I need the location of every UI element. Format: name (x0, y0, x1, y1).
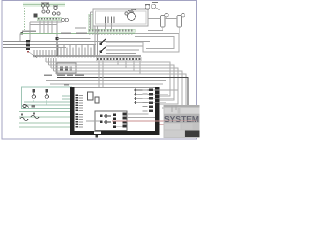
transistor Q1 (100, 114, 111, 118)
red signal wire 2 (160, 124, 197, 126)
wire lower run A (46, 80, 166, 82)
contactor K1 contacts (41, 3, 49, 9)
level sensor SL1 (151, 3, 160, 11)
PCB pin header J1 (75, 95, 83, 112)
wire Y1 feed (148, 19, 163, 31)
label row below X5 (89, 33, 133, 34)
temperature probe R1 (20, 114, 28, 121)
thermostat T1 (23, 104, 35, 107)
wire mesh horizontal run 3 (51, 68, 178, 104)
wire drops from X1 (40, 21, 57, 39)
wires from switches (98, 42, 144, 57)
wires inside sensor box (24, 96, 76, 105)
contact pair S3 (61, 18, 68, 21)
labels at Q3 (143, 89, 148, 111)
label TD (64, 84, 69, 86)
terminal block X2 (26, 40, 30, 50)
wire junction to pump drop (57, 38, 91, 40)
watermark text SYSTEM (164, 115, 199, 124)
terminal strip X5 (88, 29, 135, 32)
terminal strip X4 (96, 57, 141, 60)
wire: top green supply band (23, 3, 65, 8)
switch S1 (100, 39, 107, 45)
junction node A (55, 37, 58, 56)
capacitor C1 (106, 17, 115, 24)
relay KM1 contacts (42, 10, 60, 15)
auxiliary contact block (53, 6, 58, 10)
green sensor wires bottom left (19, 112, 76, 128)
wire lower run B (50, 83, 163, 85)
wire diagonal jumper (29, 52, 37, 58)
red signal wire 1 (112, 120, 196, 122)
PCB pin header J2 (75, 114, 83, 128)
wire mesh horizontal run 1 (46, 62, 170, 96)
red signal wire 1 over watermark (164, 120, 197, 122)
relay coil K1 (34, 13, 38, 17)
label L1 (61, 33, 87, 34)
label row above X5 (75, 27, 86, 28)
wire: green distribution line (20, 34, 140, 42)
relay bank K3 (123, 113, 127, 128)
pressure switch B1 (145, 5, 150, 10)
bus tick comb (34, 45, 94, 58)
switch S2 (100, 47, 107, 53)
wire verticals over watermark top (172, 105, 176, 112)
wires U1 outputs (86, 114, 155, 127)
main terminal bus X3 (33, 55, 141, 57)
supply wires from left (3, 42, 26, 48)
label row above bus (44, 75, 84, 77)
PCB bottom connector pin (96, 135, 99, 138)
motor M1 (125, 10, 136, 21)
solenoid valve Y1 (161, 13, 169, 27)
control board PCB A1 (70, 87, 160, 135)
wire mesh left verticals (46, 58, 56, 74)
inner loop wires right of pump (135, 34, 179, 53)
watermark logo backdrop (164, 105, 200, 138)
diode bank D1 (113, 114, 116, 128)
PCB inner module U1 (95, 111, 127, 131)
main dark return wire (57, 78, 188, 113)
solenoid valve Y2 (177, 13, 185, 27)
fuse F1 (88, 92, 100, 103)
wire drops from X4 strip (99, 61, 140, 87)
wires Q3 outputs right (153, 90, 178, 103)
svg-text:SYSTEM: SYSTEM (164, 115, 199, 124)
wire bus below X1 (30, 22, 62, 42)
terminal strip X1 (37, 17, 61, 21)
transistor Q2 (100, 120, 111, 124)
output driver bank Q3 (149, 89, 153, 113)
terminal column X0 (24, 8, 26, 30)
pump unit enclosure (93, 9, 148, 26)
phase wires to bus (30, 42, 150, 48)
wire mesh horizontal run 5 (56, 74, 186, 112)
temperature probe R2 (31, 113, 39, 119)
wires pump unit to strip (91, 12, 112, 56)
wire mesh horizontal run 2 (49, 65, 175, 100)
sensor box enclosure (22, 87, 72, 109)
driver symbols column (134, 89, 149, 105)
wire Y2 feed (165, 19, 179, 34)
page border frame (2, 1, 197, 139)
label N (21, 30, 37, 34)
terminal strip X6 vertical (89, 14, 94, 29)
wire mesh horizontal run 4 (54, 71, 183, 108)
float sensor B2 (32, 89, 35, 99)
relay module K2 (57, 63, 76, 73)
node PE (27, 51, 29, 53)
float sensor B3 (45, 89, 48, 99)
